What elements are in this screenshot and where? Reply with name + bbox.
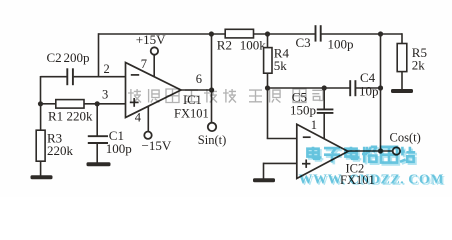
svg-text:C3: C3 bbox=[296, 35, 311, 50]
svg-text:5k: 5k bbox=[274, 58, 288, 73]
svg-text:150p: 150p bbox=[290, 103, 316, 118]
wire IC2 noninverting input bbox=[264, 162, 298, 164]
svg-text:10p: 10p bbox=[359, 83, 379, 98]
-15V terminal bbox=[144, 132, 151, 139]
node: IC1 output junction bbox=[209, 87, 214, 92]
wire R3 top bbox=[40, 104, 42, 131]
capacitor C5 bbox=[317, 108, 334, 110]
node: C1 junction bbox=[95, 101, 100, 106]
wire IC1 output bbox=[181, 89, 213, 91]
Sin(t) terminal bbox=[208, 123, 216, 131]
IC1 plus sign bbox=[130, 101, 139, 103]
wire C1 to ground bbox=[96, 143, 98, 163]
resistor R2 bbox=[225, 29, 253, 38]
wire pin3 right of R1 bbox=[84, 103, 126, 105]
svg-text:FX101: FX101 bbox=[174, 106, 209, 120]
svg-text:WWW. CNDZZ. COM: WWW. CNDZZ. COM bbox=[299, 173, 444, 188]
svg-text:4: 4 bbox=[135, 111, 142, 125]
svg-text:3: 3 bbox=[102, 88, 108, 102]
svg-text:−15V: −15V bbox=[142, 138, 172, 153]
Cos(t) terminal bbox=[393, 147, 400, 154]
svg-text:200p: 200p bbox=[64, 50, 90, 65]
svg-text:IC1: IC1 bbox=[183, 93, 202, 107]
svg-text:R1: R1 bbox=[48, 109, 63, 124]
node: rail/R4 junction bbox=[265, 31, 270, 36]
svg-text:6: 6 bbox=[196, 72, 202, 86]
IC2 plus sign bbox=[302, 163, 310, 165]
op-amp IC2 bbox=[297, 124, 348, 178]
node: left input node bbox=[38, 101, 43, 106]
svg-text:C2: C2 bbox=[47, 50, 62, 65]
op-amp IC1 bbox=[126, 63, 182, 118]
capacitor C3 bbox=[315, 25, 317, 41]
wire top rail middle segment bbox=[253, 33, 315, 35]
svg-text:100p: 100p bbox=[106, 141, 132, 156]
node: C5 top junction bbox=[322, 85, 327, 90]
wire R3 bottom to ground bbox=[40, 161, 42, 176]
node: C4 right junction bbox=[378, 85, 383, 90]
svg-text:220k: 220k bbox=[47, 143, 74, 158]
wire pin3 left of R1 bbox=[41, 103, 56, 105]
wire pin7 bbox=[153, 55, 155, 78]
blue watermark line 2 bbox=[299, 173, 446, 189]
wire mid horizontal to C4 bbox=[268, 87, 350, 89]
grey watermark text bbox=[128, 89, 323, 103]
svg-text:Cos(t): Cos(t) bbox=[390, 130, 421, 144]
ground below R5 bbox=[391, 89, 413, 93]
ground below R3 bbox=[31, 175, 53, 179]
wire right vertical C4/Cos bbox=[380, 34, 382, 151]
svg-text:220k: 220k bbox=[67, 109, 94, 124]
wire to pin2 right of C2 bbox=[74, 76, 126, 78]
svg-text:1: 1 bbox=[311, 118, 317, 132]
node: R4/C5 wire junction bbox=[265, 85, 270, 90]
resistor R4 bbox=[264, 48, 272, 74]
wire IC2 plus ground drop bbox=[263, 163, 265, 179]
capacitor C1 bbox=[88, 135, 108, 137]
wire Sin(t) vertical bbox=[211, 34, 213, 123]
wire rail corner to R5 bbox=[401, 33, 403, 43]
capacitor C2 bbox=[66, 68, 68, 85]
wire feedback vertical bbox=[98, 33, 100, 77]
IC1 minus sign bbox=[131, 74, 139, 76]
node: rail/Sin junction bbox=[209, 31, 214, 36]
wire to pin2 left of C2 bbox=[41, 76, 67, 78]
svg-text:100p: 100p bbox=[328, 37, 354, 52]
svg-text:7: 7 bbox=[141, 57, 147, 71]
svg-text:+15V: +15V bbox=[136, 32, 166, 47]
node: Cos output junction bbox=[378, 148, 383, 153]
wire left node vertical bbox=[40, 76, 42, 105]
IC2 minus sign bbox=[303, 136, 311, 138]
resistor R3 bbox=[36, 130, 45, 161]
wire top rail right segment bbox=[321, 33, 402, 35]
wire pin4 bbox=[147, 105, 149, 132]
node: rail/C4-line junction bbox=[378, 31, 383, 36]
wire R4 top drop bbox=[267, 34, 269, 48]
resistor R1 bbox=[56, 100, 84, 109]
wire IC2 pin1 bbox=[323, 113, 325, 140]
wire IC2 inverting input L bbox=[267, 88, 269, 139]
wire C1 drop bbox=[96, 104, 98, 136]
wire C4 right to vertical bbox=[356, 87, 381, 89]
ground at IC2 plus input bbox=[253, 178, 275, 182]
wire IC2 output bbox=[348, 150, 393, 152]
svg-text:R2: R2 bbox=[217, 37, 232, 52]
resistor R5 bbox=[397, 44, 407, 72]
svg-text:2k: 2k bbox=[412, 58, 426, 73]
wire R5 bottom to ground bbox=[401, 72, 403, 90]
wire C5 top drop bbox=[323, 88, 325, 109]
svg-text:2: 2 bbox=[104, 62, 110, 76]
wire R4 bottom bbox=[267, 73, 269, 88]
+15V terminal bbox=[151, 47, 158, 54]
capacitor C4 bbox=[349, 80, 351, 96]
ground below C1 bbox=[87, 162, 111, 166]
blue watermark line 1 bbox=[307, 147, 417, 165]
svg-text:100k: 100k bbox=[240, 37, 266, 52]
wire top rail left segment bbox=[99, 33, 226, 35]
svg-text:Sin(t): Sin(t) bbox=[198, 133, 226, 147]
